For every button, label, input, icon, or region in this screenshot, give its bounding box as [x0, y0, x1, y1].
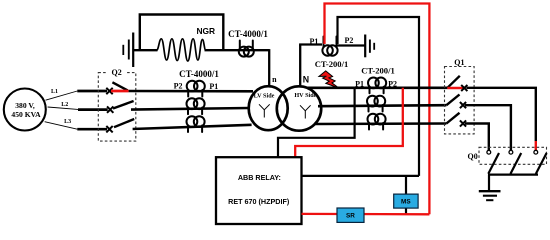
Q1 switch pole 1 blade — [447, 76, 459, 88]
wire L3 Q2 to LV transformer — [133, 125, 252, 129]
CT LV phase A — [187, 81, 205, 97]
Q1 switch pole 3 blade — [446, 113, 459, 124]
wire N to neutral CT-200/1 — [299, 43, 322, 45]
wire N riser — [299, 45, 301, 87]
wire Q1 row3 to Q0 left pole — [465, 124, 489, 151]
red secondary lead from HV CT P2 side to relay — [295, 88, 403, 158]
wire L3 pointer from source — [45, 122, 78, 130]
breaker Q0 dashed box — [479, 147, 547, 164]
svg-text:CT-4000/1: CT-4000/1 — [228, 29, 268, 39]
wire Q1 row1 to Q0 right pole — [467, 88, 536, 141]
earth ground symbol — [479, 191, 501, 200]
CT HV phase A — [368, 78, 386, 94]
svg-text:L2: L2 — [61, 102, 68, 108]
wire L2 Q2 to LV transformer — [131, 108, 249, 110]
CT LV phase B — [187, 98, 205, 114]
Q1 switch pole 2 X contact — [460, 102, 466, 108]
Q2 switch pole 2 X contact — [107, 106, 113, 112]
fault lightning bolt — [319, 71, 339, 88]
wire CT to ground — [337, 44, 366, 46]
black stub MS bottom — [405, 208, 407, 214]
svg-text:P2: P2 — [388, 80, 397, 89]
svg-text:CT-200/1: CT-200/1 — [315, 59, 349, 69]
svg-text:CT-200/1: CT-200/1 — [361, 66, 395, 76]
svg-text:NGR: NGR — [196, 26, 215, 36]
Q2 switch pole 2 blade — [113, 101, 134, 109]
black secondary lead from neutral CT P2 side — [338, 17, 420, 176]
CT neutral LV (hook style) — [239, 41, 254, 57]
red fault tail into Q0 — [535, 141, 537, 151]
ground symbol NGR left — [123, 33, 133, 68]
Q1 switch pole 1 red fault segment — [447, 87, 463, 90]
wire bus to earth — [488, 175, 490, 191]
red wire relay through SR to right riser — [302, 213, 430, 216]
Q2 switch pole 1 blade — [112, 82, 127, 90]
CT LV phase C — [187, 116, 205, 132]
wire HV row2 to Q1 — [318, 105, 446, 106]
svg-text:RET 670 (HZPDIF): RET 670 (HZPDIF) — [228, 197, 290, 206]
Q0 pole 1 blade — [488, 153, 499, 174]
svg-text:L3: L3 — [64, 119, 71, 125]
breaker Q2 dashed box — [98, 73, 136, 142]
svg-text:SR: SR — [346, 213, 355, 220]
wire NGR to CT-4000/1 neutral — [205, 49, 270, 51]
transformer HV winding circle — [277, 86, 321, 130]
CT HV phase C — [368, 114, 386, 130]
NGR enclosure loop — [140, 15, 224, 51]
relay box ABB RET670 — [216, 157, 302, 224]
Q2 switch pole 3 blade — [114, 119, 134, 127]
black secondary lead from HV CT P1 side to relay — [278, 88, 355, 158]
wire L3 to Q2 — [77, 128, 107, 131]
LV wye symbol — [259, 104, 270, 117]
svg-text:N: N — [303, 74, 309, 84]
Q0 pole 2 contact circle — [509, 150, 513, 154]
Q2 switch pole 3 X contact — [106, 126, 112, 132]
wire Q1 row2 to Q0 middle pole — [465, 105, 511, 150]
wire L2 pointer from source — [48, 107, 78, 109]
CT HV phase B — [367, 96, 385, 112]
svg-text:Q1: Q1 — [454, 58, 464, 67]
svg-text:P1: P1 — [209, 82, 218, 91]
Q1 switch pole 1 X contact — [461, 85, 467, 91]
black stub MS top — [405, 176, 407, 194]
svg-text:LV Side: LV Side — [254, 92, 275, 99]
wire HV row1 to Q1 — [307, 87, 447, 90]
MS box — [394, 194, 418, 208]
Q1 switch pole 2 blade — [446, 95, 459, 106]
svg-text:HV Side: HV Side — [294, 92, 316, 99]
HV wye symbol — [300, 105, 311, 118]
svg-text:L1: L1 — [51, 89, 58, 95]
svg-text:Q0: Q0 — [467, 152, 477, 161]
wire HV row3 to Q1 — [314, 122, 446, 125]
red secondary lead from neutral CT P1 side — [325, 4, 430, 215]
breaker Q1 dashed box — [445, 67, 475, 134]
svg-text:380 V,: 380 V, — [15, 101, 35, 110]
svg-text:ABB RELAY:: ABB RELAY: — [238, 173, 281, 182]
SR box — [337, 208, 364, 222]
svg-text:CT-4000/1: CT-4000/1 — [179, 69, 219, 79]
svg-text:P1: P1 — [355, 80, 364, 89]
wire ground to NGR — [133, 49, 157, 51]
breaker Q2 label — [108, 68, 127, 75]
svg-text:P2: P2 — [174, 82, 183, 91]
wire neutral down to n — [268, 49, 270, 86]
CT-200/1 neutral (hook style) — [322, 37, 337, 56]
wire L2 to Q2 — [78, 108, 108, 111]
wire L1 Q2 to LV transformer — [129, 90, 253, 93]
Q1 switch pole 3 X contact — [460, 120, 466, 126]
Q0 earth bus — [488, 174, 538, 176]
resistor NGR coil — [157, 39, 206, 61]
ground symbol neutral CT — [365, 35, 374, 58]
wire L1 to Q2 — [77, 90, 107, 93]
svg-text:Q2: Q2 — [111, 68, 121, 77]
source generator G 380V 450KVA — [4, 89, 46, 131]
Q0 pole 2 blade — [511, 153, 522, 174]
transformer LV winding circle — [249, 86, 288, 130]
Q0 pole 3 blade — [536, 153, 547, 174]
wire L1 pointer from source — [46, 91, 78, 100]
svg-text:n: n — [272, 75, 277, 84]
Q0 pole 3 contact circle — [534, 150, 538, 154]
svg-text:P2: P2 — [344, 36, 353, 45]
Q2 switch pole 1 X contact — [106, 88, 112, 94]
svg-text:P1: P1 — [310, 37, 319, 46]
Q0 pole 1 contact circle — [487, 150, 491, 154]
svg-text:MS: MS — [401, 199, 411, 206]
svg-text:450 KVA: 450 KVA — [11, 110, 41, 119]
black wire relay to MS riser — [302, 175, 420, 177]
Q2 switch pole 1 red fault segment — [111, 90, 129, 93]
